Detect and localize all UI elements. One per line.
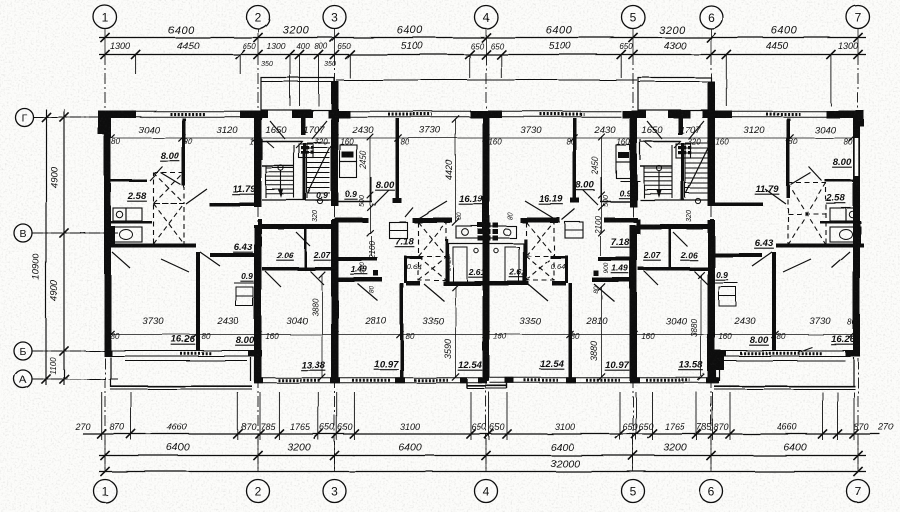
storage 0.9 right apt	[719, 287, 736, 296]
internal vertical dim line 4420 left	[455, 119, 457, 222]
interior tick marks at wall dimension points	[107, 134, 114, 141]
corridor 2.06/2.07 partition	[304, 229, 307, 267]
wc 0.64 left walls	[404, 256, 407, 283]
stair flight A landing wall	[262, 165, 294, 167]
closet corner piers center-left	[414, 218, 422, 224]
kitchen door swing	[150, 167, 163, 181]
garbage chute block stairwell 2-3	[299, 144, 314, 158]
storage 0.9 left apt	[236, 287, 253, 296]
right outer wall	[853, 111, 860, 357]
internal dimension line upper	[108, 137, 852, 139]
stairwell 2-3 entrance bay	[261, 78, 334, 111]
bath right wall	[524, 239, 527, 285]
left dimension column inner 4900/4900/1100	[63, 109, 65, 385]
stairwell 2-3 vestibule wall	[262, 141, 302, 143]
left outer wall	[104, 111, 111, 357]
stair flight B2 diagonal arrow	[686, 146, 709, 193]
stair bottom landing line 5-6	[640, 199, 712, 201]
corridor south wall 5-6	[638, 267, 710, 271]
closet dashed center-right upper	[526, 222, 554, 256]
internal dimension line lower	[108, 334, 852, 336]
stairwell 5-6 entrance door opening swings	[647, 121, 662, 139]
corridor south wall left apartment 3-4	[339, 278, 383, 283]
partition rooms 3730/2430 lower left apt	[196, 252, 200, 350]
door swing into room 3730 center-left	[414, 201, 447, 221]
canopy line above building between stairwell bays	[336, 79, 637, 81]
axis 3 transverse wall	[331, 81, 339, 206]
wall kitchen/bath	[111, 221, 152, 224]
partition lower rooms 3350/2810 right	[569, 283, 573, 378]
internal vertical dim line 3880 stairwell 5-6	[700, 275, 702, 377]
washbasin unit left of axis 4	[456, 226, 484, 238]
partition lower rooms 2810/3350 left	[400, 283, 404, 378]
door swing room 2430 lower right	[752, 252, 772, 266]
stairwell 5-6 south wall with flanges	[638, 224, 712, 229]
stairwell 2-3 entrance door opening swings	[270, 121, 285, 139]
bottom wall left apartment with window	[108, 350, 253, 352]
kitchen unit fixtures against axis 5 wall	[616, 145, 632, 162]
top-right corner pilaster	[853, 111, 864, 127]
door swings corridor to lower rooms right	[528, 284, 548, 301]
room 2430 top wall	[210, 253, 258, 257]
top outer wall piers axis G	[98, 111, 136, 119]
washbasin unit next to partition	[389, 222, 407, 238]
bottom deep wall right with windows	[490, 377, 718, 379]
washbasin unit center-right	[565, 222, 583, 238]
closet dashed center-left upper	[418, 222, 446, 256]
partition between rooms 3040 and 3120	[182, 118, 186, 186]
stair flight B2 treads	[685, 142, 708, 144]
corridor partition 5-6	[669, 229, 672, 267]
stairwell 5-6 entrance bay	[638, 78, 711, 111]
stairwell 2-3 vestibule door jambs	[266, 141, 274, 148]
axis circles bottom	[94, 480, 117, 503]
stair flight A2 treads	[644, 167, 672, 169]
kitchen door swing right	[809, 167, 822, 181]
door swing hall to room 3730	[161, 259, 189, 272]
bath right tub	[489, 244, 524, 283]
door swing room 3040 right	[791, 173, 811, 185]
bottom dimension row 2	[99, 455, 866, 457]
stair well divider	[303, 143, 306, 200]
door swing wc center-left	[374, 190, 389, 205]
washbasin unit right of axis 4	[488, 226, 516, 238]
corridor 1.49 top wall left apartment	[339, 257, 378, 261]
room 3730 right chamfer door corner	[562, 209, 575, 220]
axis 5 transverse wall	[630, 117, 638, 207]
terrace right apartment	[715, 350, 725, 370]
closet dashed right apt	[788, 183, 826, 245]
axis 2 transverse wall	[254, 117, 262, 207]
stair flight A direction arrow	[278, 165, 283, 170]
kitchen fixtures	[113, 208, 126, 221]
wc 0.64 right walls	[565, 256, 568, 283]
partition between rooms 3120 and 3040 right apt	[787, 118, 791, 198]
axis 4 transverse wall	[483, 117, 490, 381]
wall kitchen/bath right	[820, 221, 861, 224]
stairwell 5-6 vestibule door jambs	[644, 141, 652, 148]
vent shaft hatched block at axis 4	[478, 223, 484, 228]
stair flight A treads	[266, 167, 294, 169]
stairwell 2-3 center pier stub	[301, 118, 306, 135]
room 3120 bottom wall	[209, 203, 257, 207]
corridor 1.49 top wall right apartment	[598, 257, 634, 261]
axis circles left	[15, 108, 33, 126]
kitchen 2.58 top wall	[111, 180, 147, 183]
door swing wc center-right	[583, 190, 598, 205]
top-left corner pilaster	[98, 111, 106, 135]
top dimension row 1	[99, 37, 866, 39]
room 3730 center-right south wall	[604, 218, 638, 223]
bathroom fixtures right apt	[830, 227, 858, 242]
door swing room 2430 lower	[200, 252, 220, 266]
stair well divider 5-6	[681, 143, 684, 200]
internal vertical dim line 2450/500 left	[369, 137, 371, 233]
center porch step at axis 4	[466, 379, 468, 389]
corridor south wall right apartment 4-5	[490, 281, 530, 286]
closet corner piers center-right	[522, 218, 528, 224]
room 3120 door swing	[186, 189, 207, 204]
internal vertical dim line 2100 left	[371, 236, 373, 256]
bottom wall right apartment with window	[719, 350, 858, 352]
partition room 3730 / room 2430 center-right	[573, 118, 577, 203]
door swing hall to room 3730 right	[783, 259, 811, 272]
stair flight B diagonal arrow	[308, 146, 331, 193]
left dimension column outer 10900	[45, 109, 47, 385]
corridor south wall	[262, 267, 334, 271]
hall north wall left apt (axis V)	[108, 244, 196, 248]
stairwell 5-6 vestibule wall	[640, 141, 680, 143]
room 3730 center-left south wall	[335, 218, 369, 223]
closet dashed center-right lower	[526, 256, 554, 280]
internal vertical dim line 2450/500 right	[601, 137, 603, 233]
kitchen fixtures right	[846, 208, 859, 221]
door swing room 3040	[161, 173, 181, 185]
bottom dimension row 1	[83, 433, 880, 435]
bath left tub	[449, 244, 484, 283]
garbage chute block stairwell 5-6	[676, 144, 691, 158]
room 3120 bottom wall right	[715, 203, 763, 207]
top dimension row 2	[99, 54, 866, 56]
axis 6 transverse wall	[708, 81, 716, 206]
stair flight A2 landing wall	[640, 165, 672, 167]
top wall windows	[136, 110, 240, 112]
room 3120 door swing right	[765, 189, 786, 204]
kitchen 2.58 top wall right	[825, 180, 853, 183]
axis grid lines	[104, 54, 106, 472]
stair flight A2 direction arrow	[656, 165, 661, 170]
door swing into room 3730 center-right	[525, 201, 558, 221]
internal vertical dim line 3880 stairwell 2-3	[321, 275, 323, 377]
internal vertical dim line 2100 right	[600, 236, 602, 256]
stair bottom landing line	[262, 199, 335, 201]
hall north wall right apt	[776, 244, 864, 248]
stair flight B treads	[307, 142, 330, 144]
corridor door swings	[265, 271, 281, 287]
door swing hall right wall	[832, 252, 850, 268]
wc 0.9 center-left walls	[339, 201, 373, 203]
terrace left apartment	[110, 357, 112, 387]
door swings corridor to lower rooms left	[358, 284, 378, 301]
storeroom 0.9 under stair 5-6 walls	[620, 180, 640, 182]
room 3730 left chamfer door corner	[405, 208, 413, 218]
internal vertical dim line 3880 right	[601, 287, 603, 377]
closet dashed center-left lower	[418, 256, 446, 280]
door swing hall left wall	[112, 252, 130, 268]
stairwell 5-6 center pier stub	[678, 118, 683, 135]
room 2430 top wall right	[714, 253, 762, 257]
kitchen unit fixtures against axis 3 wall	[340, 145, 357, 162]
bath left wall	[445, 239, 448, 285]
bottom deep wall left (rooms 13.38/10.97/12.54) with windows	[254, 377, 482, 379]
internal vertical dim line 3590 left	[455, 287, 457, 377]
stairwell 2-3 south wall with flanges	[260, 224, 334, 229]
closet dashed lower left apt	[154, 204, 185, 245]
bottom dimension row 3 total 32000	[99, 471, 866, 473]
axis circles top	[94, 6, 117, 29]
bathroom fixtures left apt	[114, 227, 142, 242]
partition rooms 2430/3730 lower right apt	[772, 252, 776, 350]
closet dashed upper left apt	[154, 173, 185, 204]
wc 0.9 center-right walls	[600, 201, 634, 203]
partition room 2430 / room 3730 center-left	[396, 118, 400, 203]
corridor door swings 5-6	[694, 271, 710, 287]
